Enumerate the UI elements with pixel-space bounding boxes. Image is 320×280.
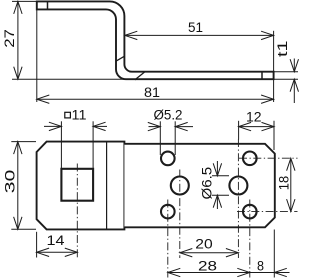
- dimension D5.2 extension lines: [159, 121, 161, 155]
- dimension 11 line segments: [44, 125, 61, 127]
- svg-text:20: 20: [195, 237, 212, 252]
- dimension 11 extension lines: [60, 121, 62, 168]
- dimension D6.5 lower arrowhead: [213, 195, 221, 208]
- side view: bend mark in top flange: [47, 1, 49, 9]
- square hole 11x11: [61, 169, 93, 201]
- dimension 14 line: [37, 251, 78, 253]
- side view: bend zone diagonal (web): [116, 56, 125, 61]
- dimension 11 arrow left: [49, 122, 62, 130]
- svg-text:51: 51: [188, 20, 203, 35]
- extension line left vertical (dim 81): [36, 9, 38, 102]
- plan view: right plate outline (chamfered): [124, 144, 274, 228]
- dimension t1 lower arrow line: [293, 79, 295, 103]
- centerline bottom-left hole: [167, 200, 169, 278]
- plate right edge extension line: [273, 230, 275, 278]
- dimension 30 extension lines: [11, 141, 36, 143]
- svg-text:18: 18: [277, 176, 292, 190]
- hole D5.2 bottom-left: [161, 205, 175, 219]
- svg-text:27: 27: [2, 29, 17, 48]
- side view: bend zone diagonal (bottom flange): [135, 72, 145, 80]
- svg-text:11: 11: [72, 108, 87, 123]
- extension line right vertical (dims 51/81): [273, 31, 275, 102]
- dimension 14 arrow right: [65, 248, 78, 256]
- dimension 28 arrow left: [168, 268, 181, 276]
- dimension 28/8 shared arrow: [237, 268, 250, 276]
- svg-text:Ø6.5: Ø6.5: [199, 167, 214, 200]
- dimension 12 arrow left: [239, 122, 252, 130]
- centerline left D6.5 hole: [179, 170, 181, 259]
- dimension D5.2 line segments: [149, 126, 161, 128]
- dimension D5.2 arrow left: [148, 122, 161, 130]
- hole D5.2 bottom-right: [243, 205, 257, 219]
- dimension 81 arrow left: [37, 95, 50, 103]
- dimension D6.5 extension lines: [212, 175, 229, 177]
- svg-text:t1: t1: [275, 41, 290, 58]
- svg-text:12: 12: [246, 110, 262, 125]
- dimension 27 arrow up: [14, 1, 22, 14]
- dimension 12 extension lines: [238, 121, 240, 140]
- dimension 20 line: [180, 252, 239, 254]
- dimension 14 arrow left: [37, 248, 50, 256]
- dimension 28/8 line: [168, 272, 290, 274]
- dimension 20 arrow right: [226, 249, 239, 257]
- dimension t1 lower arrowhead: [290, 79, 298, 92]
- svg-text:30: 30: [3, 170, 18, 194]
- dimension 11 arrow right: [93, 122, 106, 130]
- dimension t1 extension top: [274, 71, 298, 73]
- dimension 30 line: [17, 142, 19, 230]
- centerline top-right hole horizontal: [239, 157, 298, 159]
- dimension 12 arrow right: [262, 122, 275, 130]
- dimension 18 arrow up: [287, 158, 295, 171]
- dimension 81 arrow right: [261, 95, 274, 103]
- centerline square hole: [76, 164, 78, 259]
- dimension 27 arrow down: [14, 67, 22, 80]
- svg-text:Ø5.2: Ø5.2: [154, 108, 183, 123]
- hole D6.5 right: [229, 177, 247, 195]
- centerline right D6.5 hole: [237, 139, 239, 258]
- centerline bottom-right hole: [249, 200, 251, 278]
- extension line top (dim 27): [12, 0, 36, 2]
- dimension 81 line: [37, 98, 274, 100]
- dimension t1 upper arrow line: [293, 59, 295, 72]
- dimension 51 arrow right: [261, 31, 274, 39]
- dimension 51 arrow left: [125, 31, 138, 39]
- dimension 12 line: [239, 126, 274, 128]
- dimension 11 square symbol: [65, 112, 71, 118]
- dimension D6.5 upper arrowhead: [213, 163, 221, 176]
- dimension 51 line: [125, 34, 274, 36]
- svg-text:81: 81: [144, 85, 160, 100]
- dimension 14 extension line: [36, 232, 38, 258]
- hole D6.5 left: [171, 177, 189, 195]
- dimension 30 arrow up: [14, 142, 22, 155]
- dimension 30 arrow down: [14, 217, 22, 230]
- extension line baseline (dim 27 bottom): [12, 78, 126, 80]
- dimension 18 line: [290, 158, 292, 211]
- dimension D6.5 upper arrow line: [216, 161, 218, 176]
- dimension t1 upper arrowhead: [290, 59, 298, 71]
- hole D5.2 top-left: [161, 152, 175, 166]
- plan view: left clamp plate outline (chamfered): [37, 142, 125, 230]
- svg-text:14: 14: [47, 233, 66, 248]
- hole D5.2 top-right: [243, 152, 257, 166]
- dimension 18 arrow down: [287, 199, 295, 212]
- dimension 27 line: [17, 1, 19, 79]
- svg-text:28: 28: [198, 258, 217, 273]
- dimension t1 extension bottom: [274, 78, 298, 80]
- dimension 8 arrow right: [274, 268, 287, 276]
- centerline bottom-right hole horizontal: [237, 211, 298, 213]
- dimension 20 arrow left: [180, 249, 193, 257]
- side view: Z-bracket profile outline: [37, 1, 274, 79]
- dimension D6.5 lower arrow line: [216, 195, 218, 209]
- plan view: bend line: [106, 142, 108, 230]
- svg-text:8: 8: [257, 258, 264, 273]
- side view: end mark in bottom flange: [261, 72, 263, 80]
- dimension D5.2 arrow right: [175, 122, 188, 130]
